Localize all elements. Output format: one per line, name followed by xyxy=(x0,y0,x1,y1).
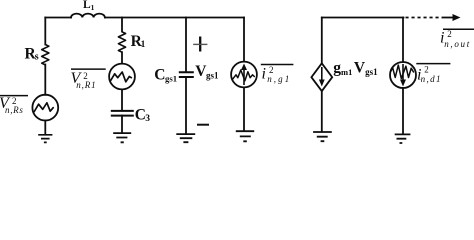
wire: Cgs1 to ground xyxy=(185,77,187,133)
svg-text:Cgs1: Cgs1 xyxy=(154,66,177,83)
wire: Cgs1 branch top xyxy=(185,18,187,72)
wire: dashed output line xyxy=(406,17,443,19)
wire: i_n,g1 to ground xyxy=(243,87,245,130)
noise wave inside V_n,R1 xyxy=(111,72,132,82)
wire: R1 to noise source xyxy=(121,52,123,63)
svg-text:i: i xyxy=(262,66,266,83)
ground (gm1 branch) xyxy=(313,132,332,141)
overline i_n,out xyxy=(443,28,474,30)
wire: R1 branch top xyxy=(121,18,123,32)
svg-text:L1: L1 xyxy=(83,0,95,12)
svg-text:Vgs1: Vgs1 xyxy=(195,63,219,81)
ground (Rs branch) xyxy=(38,135,52,143)
output arrow xyxy=(442,17,455,19)
noise source V_n,Rs circle xyxy=(32,95,58,121)
wire: Rs to noise source xyxy=(44,65,46,95)
current noise source i_n,g1 circle xyxy=(231,62,257,88)
arrow (down) inside diamond xyxy=(321,67,323,81)
wire: gm1Vgs1 branch top xyxy=(321,18,323,64)
noise wave inside i_n,d1 xyxy=(391,65,414,78)
wire: diamond to ground xyxy=(321,91,323,131)
svg-text:R1: R1 xyxy=(131,33,146,50)
svg-text:n,g1: n,g1 xyxy=(267,74,291,84)
inductor L1 xyxy=(71,14,105,18)
ground (Cgs1 branch) xyxy=(176,134,195,142)
arrow (up) inside i_n,g1 xyxy=(243,66,245,85)
svg-text:n,out: n,out xyxy=(444,39,471,49)
dependent source gm1Vgs1 diamond xyxy=(311,63,332,91)
arrow (down) inside i_n,d1 xyxy=(402,64,404,82)
overline i_n,g1 xyxy=(261,64,294,66)
plus sign xyxy=(199,37,201,52)
overline i_n,d1 xyxy=(416,63,450,65)
wire: i_n,d1 branch top xyxy=(402,18,404,62)
minus sign xyxy=(197,124,209,126)
wire: noise source to ground xyxy=(44,121,46,135)
noise source i_n,d1 circle xyxy=(390,62,416,88)
capacitor C3 plates xyxy=(112,111,133,116)
svg-text:n,Rs: n,Rs xyxy=(5,105,24,115)
svg-text:gm1Vgs1: gm1Vgs1 xyxy=(333,60,378,78)
wire: right circuit top bus xyxy=(322,17,404,19)
svg-text:2: 2 xyxy=(447,29,452,39)
resistor R1 xyxy=(118,32,125,52)
ground (i_n,g1 branch) xyxy=(236,131,254,141)
svg-text:C3: C3 xyxy=(135,107,151,125)
svg-text:n,d1: n,d1 xyxy=(421,74,442,84)
svg-text:Rs: Rs xyxy=(25,45,39,62)
noise source V_n,R1 circle xyxy=(109,64,135,90)
wire: i_n,g1 branch top xyxy=(243,18,245,62)
noise wave inside V_n,Rs xyxy=(34,103,53,112)
wire: i_n,d1 to ground xyxy=(402,88,404,134)
noise wave inside i_n,g1 xyxy=(233,70,255,81)
wire: top-left horizontal bus from Rs corner to i_n,g1 corner xyxy=(45,17,244,19)
svg-text:n,R1: n,R1 xyxy=(76,80,96,90)
ground (C3 branch) xyxy=(113,133,131,142)
ground (i_n,d1 branch) xyxy=(395,134,411,143)
wire: Rs branch vertical top xyxy=(44,18,46,45)
overline V_n,R1 xyxy=(71,68,106,70)
wire: C3 to ground xyxy=(121,116,123,133)
capacitor Cgs1 plates xyxy=(180,72,193,77)
wire: noise source to capacitor C3 xyxy=(121,89,123,110)
resistor Rs xyxy=(42,45,49,65)
overline V_n,Rs xyxy=(0,95,28,97)
